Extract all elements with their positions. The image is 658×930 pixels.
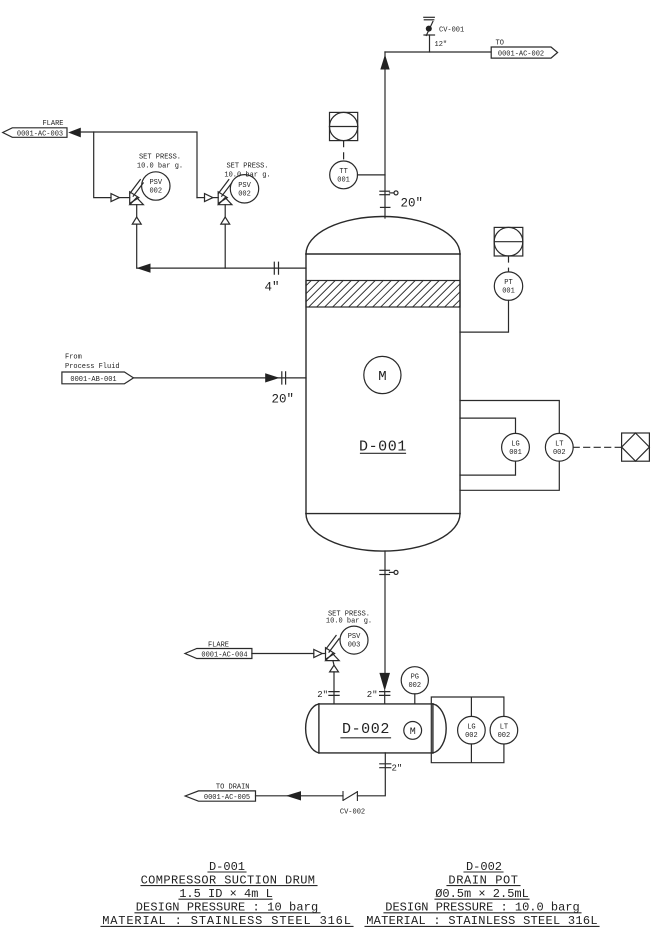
instrument PSV-002a (142, 172, 170, 200)
svg-text:002: 002 (408, 682, 421, 690)
wire vapor outlet riser (384, 52, 386, 218)
instrument LG-002 (458, 716, 486, 744)
svg-text:0001-AC-004: 0001-AC-004 (201, 652, 247, 660)
flow arrow left to flare (68, 128, 81, 138)
interlock logic box (622, 433, 650, 461)
label From Process Fluid (65, 353, 120, 371)
wire 20in inlet line (134, 377, 307, 379)
svg-text:Process Fluid: Process Fluid (65, 363, 120, 371)
spectacle blind bottom (380, 570, 398, 574)
valve CV-002 (343, 792, 357, 801)
svg-text:001: 001 (337, 177, 350, 185)
flange pair D-002 right nozzle (380, 692, 390, 696)
label 2" right nozzle (367, 690, 378, 700)
label 20" top (401, 197, 424, 211)
flow arrow right inlet (265, 373, 279, 382)
flange pair drain (380, 764, 391, 768)
svg-text:002: 002 (238, 190, 251, 198)
node TO label (496, 40, 504, 48)
svg-text:002: 002 (498, 732, 511, 740)
label SET PRESS PSV-002a (137, 153, 183, 170)
flag 0001-AB-001 inlet (62, 372, 134, 384)
wire PSV-002a inlet riser (136, 224, 138, 268)
flag 0001-AC-003 (3, 128, 67, 139)
instrument PG-002 (401, 667, 428, 694)
svg-text:LG: LG (467, 723, 475, 731)
svg-text:0001-AC-003: 0001-AC-003 (17, 130, 63, 138)
svg-text:003: 003 (348, 642, 361, 650)
wire PSV-003 inlet (333, 672, 335, 704)
svg-text:From: From (65, 353, 82, 361)
instrument LG-001 (502, 433, 530, 461)
svg-text:LT: LT (555, 440, 563, 448)
label D-001 (359, 439, 407, 456)
demister pad hatch (306, 281, 460, 308)
svg-text:PT: PT (504, 279, 512, 287)
svg-text:002: 002 (465, 732, 478, 740)
mixer M symbol D-002 (404, 722, 422, 740)
svg-text:LT: LT (500, 723, 508, 731)
svg-text:TT: TT (339, 168, 347, 176)
svg-text:001: 001 (509, 449, 522, 457)
label SET PRESS PSV-003 (326, 611, 372, 626)
flow arrow down into D-002 (379, 673, 390, 691)
svg-text:PSV: PSV (348, 633, 361, 641)
label TO DRAIN (216, 784, 250, 792)
underline D-001 (361, 452, 406, 454)
svg-text:002: 002 (553, 449, 566, 457)
label 2" left nozzle (317, 690, 328, 700)
flag 0001-AC-005 (185, 791, 255, 802)
svg-text:2″: 2″ (367, 690, 378, 700)
svg-text:4″: 4″ (265, 281, 280, 295)
svg-text:0001-AC-005: 0001-AC-005 (204, 794, 250, 802)
wire LT-002 taps (460, 401, 559, 491)
wire right nozzle (384, 691, 386, 704)
wire PSV-003 outlet (252, 653, 314, 655)
label SET PRESS PSV-002b (224, 162, 270, 179)
svg-text:D-002: D-002 (342, 721, 390, 738)
mixer M symbol D-001 (364, 356, 401, 393)
vessel D-002 shell (306, 704, 447, 753)
instrument LT-002 (545, 433, 573, 461)
label 4" (265, 281, 280, 295)
flow arrow left to drain (286, 791, 301, 800)
spectacle blind top (380, 191, 398, 208)
svg-text:LG: LG (511, 440, 519, 448)
vessel D-001 shell (306, 217, 460, 552)
label 12" (435, 41, 448, 49)
svg-text:002: 002 (149, 188, 162, 196)
svg-text:TO: TO (496, 40, 504, 48)
svg-text:FLARE: FLARE (42, 120, 63, 128)
svg-text:10.0 bar g.: 10.0 bar g. (326, 618, 372, 626)
label CV-001 (439, 27, 464, 35)
wire signal TT dashed (343, 141, 345, 161)
wire LG-001 taps (460, 418, 516, 475)
bridle frame D-002 (431, 697, 504, 763)
wire right PSV outlet (197, 197, 205, 199)
instrument box PIC shared display (494, 227, 523, 256)
wire 4in flare header (137, 267, 306, 269)
label D-002 (342, 721, 390, 738)
svg-text:2″: 2″ (392, 764, 403, 774)
svg-text:20″: 20″ (272, 393, 295, 407)
svg-text:CV-001: CV-001 (439, 27, 464, 35)
wire PG tap (414, 694, 416, 704)
relief valve PSV-002b (205, 180, 232, 225)
label 20" inlet (272, 393, 295, 407)
label FLARE top (42, 120, 63, 128)
wire flare header (81, 132, 197, 198)
instrument TT-001 (330, 161, 358, 189)
svg-text:SET PRESS.: SET PRESS. (226, 162, 268, 170)
wire signal LT dashed (573, 446, 621, 448)
flange pair on 4in line (274, 262, 278, 274)
label CV-002 (340, 809, 365, 817)
flow arrow up (380, 55, 389, 70)
instrument PSV-002b (230, 175, 258, 203)
label 2" drain (392, 764, 403, 774)
instrument PSV-003 (340, 626, 368, 654)
wire bottom outlet stub (384, 551, 386, 674)
svg-text:PSV: PSV (149, 179, 162, 187)
title block D-002 (366, 860, 598, 928)
svg-text:M: M (378, 369, 386, 385)
wire PSV-002b inlet riser (224, 224, 226, 268)
wire drain outlet (256, 753, 386, 796)
svg-text:10.0 bar g.: 10.0 bar g. (137, 163, 183, 171)
svg-text:20″: 20″ (401, 197, 424, 211)
underlines title block D-002 (365, 872, 599, 926)
svg-text:2″: 2″ (317, 690, 328, 700)
relief valve PSV-003 (314, 636, 339, 672)
svg-text:0001-AB-001: 0001-AB-001 (70, 376, 116, 384)
wire left PSV outlet drop (94, 132, 111, 198)
wire PT tap (460, 300, 509, 332)
instrument PT-001 (494, 272, 522, 300)
wire overhead line to AC-002 (385, 51, 491, 53)
svg-text:M: M (410, 727, 416, 738)
relief valve PSV-002a (111, 180, 143, 225)
instrument LT-002b (490, 716, 518, 744)
flange pair on inlet (282, 372, 286, 384)
svg-text:12″: 12″ (435, 41, 448, 49)
wire signal PT dashed (508, 256, 510, 272)
svg-text:001: 001 (502, 288, 515, 296)
underlines title block D-001 (101, 872, 353, 926)
flag 0001-AC-004 (185, 649, 252, 660)
svg-text:CV-002: CV-002 (340, 809, 365, 817)
svg-text:PSV: PSV (238, 182, 251, 190)
underline D-002 (341, 737, 391, 739)
svg-text:PG: PG (411, 673, 419, 681)
svg-text:SET PRESS.: SET PRESS. (139, 153, 181, 161)
flag 0001-AC-002 (491, 47, 557, 59)
vent CV-001 (424, 17, 435, 52)
flange pair D-002 left nozzle (329, 692, 339, 696)
instrument box TIC shared display (330, 112, 358, 140)
title block D-001 (102, 860, 352, 928)
wire TT tap (358, 174, 386, 176)
svg-text:0001-AC-002: 0001-AC-002 (498, 51, 544, 59)
label FLARE bottom (208, 641, 229, 649)
flow arrow left on 4in header (137, 264, 151, 273)
